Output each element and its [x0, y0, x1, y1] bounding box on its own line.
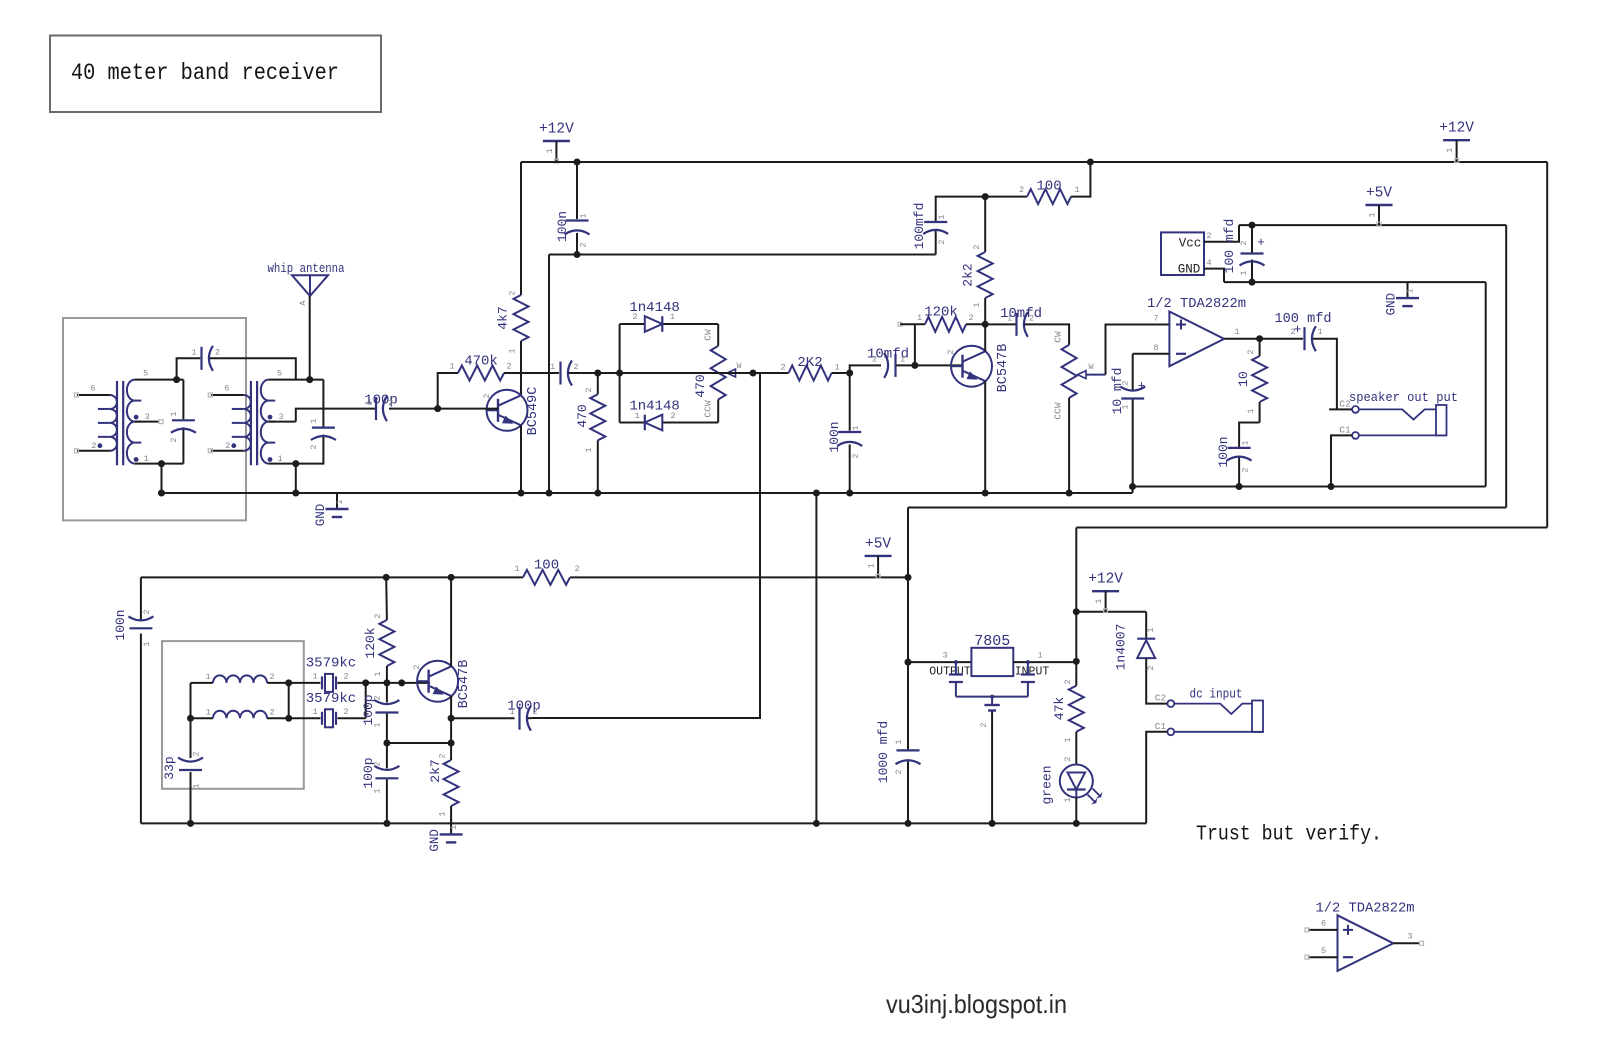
svg-text:2: 2 [1241, 467, 1251, 472]
svg-text:8: 8 [1153, 343, 1158, 353]
wire +5V rail right [1239, 224, 1506, 226]
ground symbol osc [450, 818, 452, 834]
svg-text:1: 1 [169, 411, 179, 416]
junction GND rail cap [1249, 279, 1256, 286]
power +12V right symbol [1443, 139, 1470, 141]
svg-text:2: 2 [972, 244, 982, 249]
svg-text:OUTPUT: OUTPUT [929, 665, 971, 678]
capacitor 100p input [375, 397, 377, 420]
junction rail volume pot [1066, 490, 1073, 497]
wire T1 tank drop [182, 380, 184, 420]
svg-text:1: 1 [550, 362, 555, 372]
svg-text:100 mfd: 100 mfd [1222, 219, 1237, 274]
svg-text:1: 1 [312, 707, 317, 717]
junction 120k bottom node [383, 679, 390, 686]
svg-text:+5V: +5V [865, 536, 891, 552]
svg-text:2: 2 [343, 707, 348, 717]
wire BC547B emitter [984, 381, 986, 493]
wire +12V bottom rail [1076, 611, 1146, 613]
connector C2 dc [1167, 700, 1174, 707]
wire pin8 lead [1133, 353, 1170, 355]
wire +12V right edge drop [1546, 162, 1548, 528]
wire ground line y=254.5 [549, 254, 936, 256]
svg-text:2: 2 [968, 313, 973, 323]
svg-text:2: 2 [979, 722, 989, 727]
svg-text:+12V: +12V [1088, 572, 1123, 588]
capacitor 100p (feedback 2) [375, 777, 398, 779]
junction +12V bottom rail [1073, 608, 1080, 615]
wire volume pot CCW to rail [1068, 398, 1070, 493]
wire T2 pin5 [269, 379, 324, 381]
wire speaker sleeve [1359, 434, 1447, 436]
svg-text:5: 5 [143, 369, 148, 379]
svg-text:+: + [1294, 322, 1302, 337]
svg-text:1: 1 [1241, 440, 1251, 445]
junction rail 1000mfd [905, 820, 912, 827]
svg-text:5: 5 [277, 369, 282, 379]
junction wiper node [750, 370, 757, 377]
wire T1 pin1 [135, 463, 184, 465]
resistor 2k2 (collector load) [978, 252, 993, 298]
svg-text:1: 1 [634, 411, 639, 421]
svg-text:1: 1 [1121, 404, 1131, 409]
junction emitter out [448, 715, 455, 722]
svg-text:33p: 33p [162, 756, 177, 779]
svg-text:1: 1 [508, 348, 518, 353]
wire 7805 gnd bracket [956, 696, 1028, 698]
capacitor 100 mfd (Vcc) [1251, 225, 1253, 252]
wire coupling cap to T2 [210, 358, 296, 380]
inductor L1 [213, 675, 267, 682]
junction +12V rail 100 [1087, 159, 1094, 166]
svg-text:1: 1 [144, 454, 149, 464]
wire collector to 10mfd [985, 323, 1015, 325]
wire +5V return line [908, 507, 1506, 509]
svg-text:1: 1 [1406, 289, 1416, 294]
junction jog 10mfd pin1 [1129, 483, 1136, 490]
op-amp U1 TDA2822m [1169, 312, 1224, 367]
wire base BC549C [389, 408, 498, 410]
svg-text:2: 2 [169, 437, 179, 442]
resistor 10 (zobel) [1252, 356, 1267, 402]
svg-text:2: 2 [269, 672, 274, 682]
wire 100 left lead [985, 196, 1027, 198]
wire 1000mfd drop [907, 662, 909, 749]
svg-text:1: 1 [191, 348, 196, 358]
junction fb right [448, 740, 455, 747]
junction rail T2 [292, 490, 299, 497]
svg-text:2: 2 [532, 707, 537, 717]
svg-text:1: 1 [205, 672, 210, 682]
resistor 120k (osc bias) [379, 620, 394, 666]
svg-text:1: 1 [1234, 327, 1239, 337]
svg-text:4: 4 [1206, 258, 1211, 268]
svg-text:1: 1 [1146, 627, 1156, 632]
svg-text:2: 2 [506, 362, 511, 372]
svg-text:1: 1 [1246, 408, 1256, 413]
svg-text:whip antenna: whip antenna [268, 261, 345, 276]
svg-text:2: 2 [1246, 349, 1256, 354]
svg-text:1: 1 [449, 362, 454, 372]
wire to C2 contact [1337, 408, 1352, 410]
capacitor 10mfd (audio coupling) [894, 354, 896, 377]
wire 470k to cap [504, 372, 559, 374]
capacitor 10mfd (collector out) [1015, 313, 1017, 336]
svg-text:BC549C: BC549C [526, 387, 541, 436]
wire 100 to rail [1071, 162, 1090, 197]
wire 33p drop [190, 718, 192, 758]
svg-text:2: 2 [192, 751, 202, 756]
wire L1-L2 right vertical [288, 683, 290, 718]
junction 100 resistor node [982, 193, 989, 200]
wire 4k7 top lead [520, 162, 522, 295]
svg-text:1: 1 [335, 499, 345, 504]
svg-text:+5V: +5V [1366, 186, 1392, 202]
svg-text:+12V: +12V [1439, 121, 1474, 137]
junction L right top [285, 679, 292, 686]
wire T1 pin1 to rail [161, 464, 163, 493]
svg-text:Vcc: Vcc [1179, 237, 1202, 251]
wire X2 to X1 vertical [365, 683, 367, 718]
wire crystal X1 line [289, 682, 321, 684]
wire 100n top leads [576, 162, 578, 219]
svg-text:2k2: 2k2 [961, 263, 976, 286]
junction rail zobel [1236, 483, 1243, 490]
svg-text:6: 6 [1321, 919, 1326, 929]
junction TDA output node [1256, 335, 1263, 342]
junction rail LED [1073, 820, 1080, 827]
svg-text:2: 2 [373, 695, 383, 700]
junction T1 pin5 node [173, 376, 180, 383]
capacitor 100 mfd output [1303, 327, 1305, 350]
svg-text:1: 1 [367, 398, 372, 408]
junction L left bottom [187, 715, 194, 722]
svg-text:2: 2 [780, 363, 785, 373]
svg-text:2: 2 [373, 613, 383, 618]
wire T1 pin3 tick [135, 421, 160, 423]
svg-text:1: 1 [1063, 737, 1073, 742]
svg-text:2: 2 [1239, 240, 1249, 245]
svg-text:1/2 TDA2822m: 1/2 TDA2822m [1147, 296, 1246, 312]
antenna symbol [292, 275, 328, 296]
svg-text:120k: 120k [924, 305, 958, 321]
svg-text:2: 2 [482, 393, 492, 398]
svg-text:BC547B: BC547B [457, 660, 472, 709]
capacitor 1000 mfd [897, 749, 920, 751]
svg-text:2: 2 [388, 398, 393, 408]
svg-text:GND: GND [1385, 293, 1399, 316]
LED green [1060, 765, 1093, 798]
svg-text:CCW: CCW [703, 400, 714, 417]
junction +5V line [905, 574, 912, 581]
resistor 100 (decoupling) [1027, 189, 1071, 204]
svg-text:1: 1 [972, 302, 982, 307]
wire 120k right lead [966, 323, 985, 325]
wire inductor L2 leads [191, 717, 214, 719]
svg-text:1: 1 [670, 312, 675, 322]
wire 1n4007 to C2 [1146, 658, 1167, 704]
svg-text:2: 2 [215, 348, 220, 358]
svg-text:2: 2 [269, 708, 274, 718]
svg-text:1: 1 [373, 722, 383, 727]
wire BC547B collector [984, 324, 986, 351]
junction L right bottom [285, 715, 292, 722]
transformer T1 [110, 395, 117, 451]
svg-text:470: 470 [575, 404, 590, 427]
svg-text:2: 2 [670, 411, 675, 421]
junction rail 100n audio [846, 490, 853, 497]
wire TDA output [1224, 338, 1303, 340]
wire cap to diode node [569, 372, 620, 374]
wire 120k riser [914, 324, 916, 365]
svg-text:2k7: 2k7 [428, 759, 443, 782]
wire +5V riser [907, 508, 909, 663]
svg-text:Trust but verify.: Trust but verify. [1196, 824, 1382, 847]
svg-text:1: 1 [509, 707, 514, 717]
wire 120k left lead [900, 323, 925, 325]
svg-text:2: 2 [1121, 380, 1131, 385]
wire pot CCW lead [717, 400, 719, 423]
transistor Q2 BC547B [951, 346, 992, 387]
svg-text:4k7: 4k7 [496, 306, 511, 329]
wire osc collector [450, 577, 452, 666]
wire GND rail [1224, 281, 1486, 283]
svg-text:1: 1 [1037, 651, 1042, 661]
junction rail 470 [594, 490, 601, 497]
svg-text:1: 1 [584, 447, 594, 452]
svg-text:3: 3 [1407, 932, 1412, 942]
svg-text:40 meter band receiver: 40 meter band receiver [71, 60, 339, 86]
wire 10 res leads [1259, 339, 1261, 356]
svg-text:C1: C1 [1155, 721, 1167, 732]
svg-text:1: 1 [937, 214, 947, 219]
svg-text:2: 2 [851, 453, 861, 458]
svg-text:2: 2 [574, 564, 579, 574]
junction top rail 100n [574, 159, 581, 166]
diode 1n4007 [1137, 638, 1155, 640]
junction detector node [594, 370, 601, 377]
wire osc base line [366, 682, 430, 684]
connector C2 speaker [1352, 406, 1359, 413]
junction OUTPUT node [905, 659, 912, 666]
capacitor 100n (audio filter) [838, 431, 861, 433]
svg-text:CW: CW [1053, 331, 1064, 343]
junction 100n pin2 [574, 251, 581, 258]
wire 120k osc top lead [385, 577, 388, 620]
svg-text:2: 2 [508, 290, 518, 295]
svg-text:3: 3 [279, 412, 284, 422]
svg-text:GND: GND [1178, 263, 1201, 277]
svg-text:6: 6 [224, 384, 229, 394]
wire INPUT lead [1013, 661, 1076, 663]
svg-text:100n: 100n [827, 421, 842, 452]
wire 7805 pin2 to rail [991, 712, 993, 824]
wire zobel jog [1239, 423, 1260, 447]
wire fb connector [387, 742, 451, 744]
junction rail BC547B emitter [982, 490, 989, 497]
wire diode pair left vertical [619, 324, 621, 423]
svg-text:A: A [298, 300, 308, 306]
svg-text:1: 1 [867, 563, 877, 568]
wire 2K2 to junction [832, 372, 850, 374]
svg-text:47k: 47k [1052, 697, 1067, 721]
svg-text:1: 1 [1368, 212, 1378, 217]
junction rail C1 [1328, 483, 1335, 490]
svg-text:2: 2 [142, 609, 152, 614]
svg-text:C2: C2 [1155, 693, 1167, 704]
wire 470 leads [597, 373, 599, 394]
svg-text:1: 1 [438, 811, 448, 816]
svg-text:1: 1 [449, 825, 459, 830]
junction rail BC549C emitter [518, 490, 525, 497]
wire 10 mfd drop [1132, 354, 1134, 390]
diode D1 1n4148 (top) [645, 316, 663, 332]
wire ground link to bottom section [815, 493, 817, 823]
capacitor 100n (zobel) [1228, 447, 1251, 449]
wire 2k7 to gnd [450, 806, 452, 831]
wire wiper riser to pin7 [1106, 325, 1170, 375]
svg-text:10: 10 [1236, 371, 1251, 387]
op-amp U1b TDA2822m (spare) [1338, 915, 1394, 971]
svg-text:BC547B: BC547B [996, 344, 1011, 393]
svg-text:470: 470 [693, 374, 708, 397]
capacitor coupling (470k to detector) [559, 362, 561, 385]
inductor L2 [213, 711, 267, 718]
svg-text:+: + [1138, 379, 1146, 394]
svg-text:100: 100 [534, 558, 559, 574]
svg-text:100n: 100n [555, 211, 570, 242]
bypass cap input side [1026, 660, 1030, 664]
gray box around input transformer [63, 318, 246, 520]
wire 100mfd branch [936, 197, 986, 221]
wire 100n audio leads [849, 373, 851, 431]
resistor 2K2 [789, 366, 832, 381]
ground symbol GND net [1407, 282, 1409, 298]
svg-text:1: 1 [1317, 327, 1322, 337]
svg-text:2: 2 [1206, 231, 1211, 241]
wire 2k2 vert leads [984, 197, 986, 252]
svg-text:2: 2 [632, 312, 637, 322]
wire ground rail right part [1133, 487, 1486, 494]
power +5V bottom symbol [865, 555, 892, 557]
wire 47k to LED [1075, 732, 1077, 765]
crystal X1 3579kc [321, 676, 323, 689]
wire antenna drop [309, 296, 311, 380]
wire C1 to rail [1146, 732, 1167, 824]
wire ground drop x=549 [548, 255, 550, 494]
pad T1 pin3 [159, 420, 163, 424]
wire inductor L1 leads [191, 682, 214, 684]
potentiometer 470 (regen) [711, 346, 726, 400]
bypass cap output side [954, 660, 958, 664]
wire osc emitter [450, 696, 452, 760]
svg-text:1: 1 [917, 313, 922, 323]
svg-text:INPUT: INPUT [1015, 665, 1050, 678]
svg-text:1000 mfd: 1000 mfd [876, 721, 891, 783]
svg-text:1: 1 [1063, 797, 1073, 802]
svg-text:2: 2 [1063, 679, 1073, 684]
wire main ground rail [158, 492, 1133, 494]
svg-text:2: 2 [579, 242, 589, 247]
regulator 7805 body [971, 648, 1013, 676]
power +12V bottom symbol [1092, 590, 1119, 592]
svg-text:1: 1 [579, 213, 589, 218]
wire bottom ground rail [141, 822, 1146, 824]
pot 470 wiper arrow [727, 369, 736, 377]
svg-text:3: 3 [145, 412, 150, 422]
wire T2 pin1 to rail [295, 464, 297, 493]
wire GND net right riser [1485, 282, 1487, 486]
wire 120k osc bottom lead [386, 666, 388, 683]
wire +12V riser [1075, 528, 1077, 612]
svg-text:1: 1 [142, 641, 152, 646]
wire emitter out line [451, 717, 514, 719]
connector C1 speaker [1352, 432, 1359, 439]
wire bottom diode leads [620, 422, 645, 424]
wire 47k top lead [1075, 612, 1077, 686]
connector C1 dc [1167, 728, 1174, 735]
svg-text:2: 2 [946, 349, 956, 354]
wire +12V top rail [521, 161, 1547, 163]
svg-text:1: 1 [834, 363, 839, 373]
svg-text:1: 1 [373, 671, 383, 676]
wire +5V line y=577 [141, 576, 523, 578]
svg-text:2K2: 2K2 [797, 355, 822, 371]
svg-text:7: 7 [1153, 314, 1158, 324]
svg-text:2: 2 [894, 769, 904, 774]
svg-text:2: 2 [872, 355, 877, 365]
svg-text:1: 1 [894, 739, 904, 744]
pot volume wiper arrow [1078, 371, 1087, 379]
svg-text:100: 100 [1036, 179, 1061, 195]
junction rail x549 [546, 490, 553, 497]
wire 470k left drop [438, 373, 458, 409]
svg-text:1: 1 [278, 454, 283, 464]
junction base node BC547B [911, 362, 918, 369]
resistor 470 (vertical) [590, 394, 605, 440]
svg-text:3579kc: 3579kc [306, 656, 356, 672]
svg-text:2: 2 [1063, 756, 1073, 761]
svg-text:3: 3 [942, 651, 947, 661]
wire +5V right edge drop [1505, 225, 1507, 507]
gray box oscillator tank [162, 641, 304, 789]
junction rail T1 [158, 490, 165, 497]
svg-text:1: 1 [545, 148, 555, 153]
diode D2 1n4148 (bottom) [645, 415, 663, 431]
svg-text:2: 2 [412, 664, 422, 669]
wire dc sleeve [1174, 731, 1263, 733]
speaker jack body [1436, 405, 1447, 435]
junction ground link top [813, 490, 820, 497]
title box [50, 36, 381, 113]
ground symbol near T2 [336, 493, 338, 509]
junction +5V collector [448, 574, 455, 581]
svg-text:1: 1 [514, 564, 519, 574]
wire GND lead [1204, 269, 1224, 283]
svg-text:1: 1 [1094, 599, 1104, 604]
svg-text:2: 2 [225, 441, 230, 451]
capacitor 33p [179, 769, 202, 771]
capacitor T2 tank [312, 427, 335, 429]
svg-text:CW: CW [703, 329, 714, 341]
svg-text:GND: GND [314, 504, 328, 527]
power +12V top symbol [543, 140, 570, 142]
svg-text:1/2 TDA2822m: 1/2 TDA2822m [1316, 902, 1415, 917]
svg-text:+: + [1257, 235, 1265, 250]
svg-text:100mfd: 100mfd [912, 203, 927, 250]
pad 120k pin1 [898, 322, 902, 326]
wire 100p out right lead [528, 717, 532, 719]
